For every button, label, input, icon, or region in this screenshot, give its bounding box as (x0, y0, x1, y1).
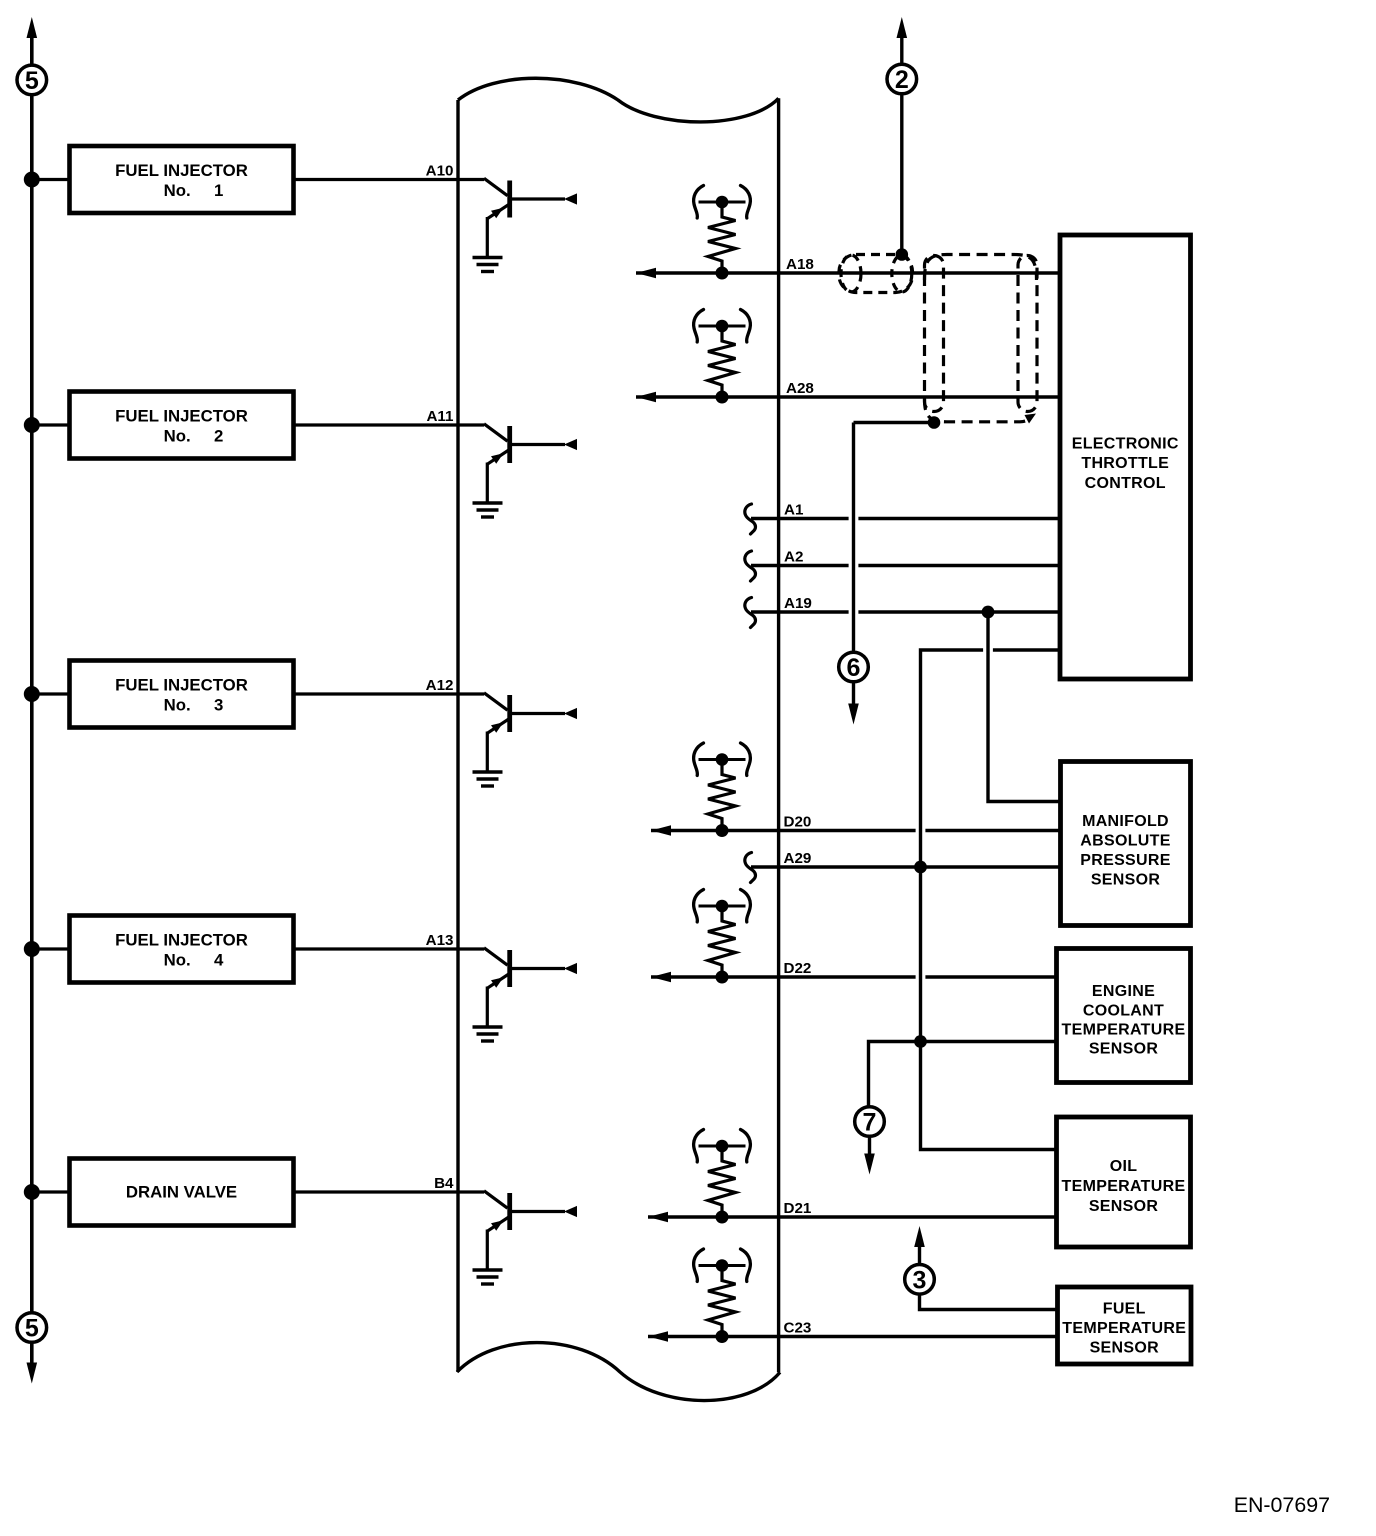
svg-text:7: 7 (863, 1109, 877, 1137)
svg-text:OIL: OIL (1110, 1158, 1138, 1175)
svg-text:FUEL INJECTOR: FUEL INJECTOR (115, 161, 248, 180)
svg-text:A18: A18 (786, 256, 814, 273)
svg-text:MANIFOLD: MANIFOLD (1082, 813, 1169, 830)
svg-text:No. 2: No. 2 (164, 427, 224, 446)
svg-text:D20: D20 (784, 813, 812, 830)
svg-text:2: 2 (895, 66, 909, 94)
svg-text:5: 5 (25, 1315, 39, 1343)
svg-text:A13: A13 (426, 932, 454, 949)
svg-text:A12: A12 (426, 677, 454, 694)
svg-text:SENSOR: SENSOR (1091, 872, 1161, 889)
svg-text:THROTTLE: THROTTLE (1081, 455, 1169, 472)
svg-text:5: 5 (25, 67, 39, 95)
svg-text:No. 1: No. 1 (164, 181, 224, 200)
svg-text:A29: A29 (784, 850, 812, 867)
svg-text:EN-07697: EN-07697 (1234, 1493, 1330, 1517)
svg-text:DRAIN VALVE: DRAIN VALVE (126, 1183, 237, 1202)
svg-text:FUEL: FUEL (1103, 1301, 1146, 1318)
svg-text:TEMPERATURE: TEMPERATURE (1062, 1320, 1186, 1337)
svg-text:A10: A10 (426, 163, 454, 180)
svg-text:COOLANT: COOLANT (1083, 1003, 1164, 1020)
svg-text:SENSOR: SENSOR (1090, 1340, 1160, 1357)
svg-text:A19: A19 (784, 595, 812, 612)
svg-text:A1: A1 (784, 501, 804, 518)
svg-text:FUEL INJECTOR: FUEL INJECTOR (115, 676, 248, 695)
svg-text:No. 4: No. 4 (164, 951, 224, 970)
svg-text:B4: B4 (434, 1175, 454, 1192)
svg-text:C23: C23 (784, 1319, 812, 1336)
svg-text:D21: D21 (784, 1200, 812, 1217)
svg-text:SENSOR: SENSOR (1089, 1198, 1159, 1215)
svg-text:FUEL INJECTOR: FUEL INJECTOR (115, 407, 248, 426)
svg-text:A11: A11 (426, 408, 454, 425)
svg-text:SENSOR: SENSOR (1089, 1041, 1159, 1058)
svg-text:A28: A28 (786, 380, 814, 397)
svg-text:PRESSURE: PRESSURE (1080, 852, 1170, 869)
svg-text:A2: A2 (784, 548, 803, 565)
svg-text:CONTROL: CONTROL (1085, 475, 1166, 492)
svg-text:TEMPERATURE: TEMPERATURE (1062, 1178, 1186, 1195)
svg-text:ELECTRONIC: ELECTRONIC (1072, 436, 1179, 453)
svg-text:FUEL INJECTOR: FUEL INJECTOR (115, 931, 248, 950)
svg-text:3: 3 (913, 1266, 927, 1294)
svg-text:6: 6 (847, 654, 861, 682)
svg-text:ENGINE: ENGINE (1092, 983, 1155, 1000)
svg-text:No. 3: No. 3 (164, 696, 224, 715)
svg-text:ABSOLUTE: ABSOLUTE (1080, 833, 1170, 850)
svg-text:TEMPERATURE: TEMPERATURE (1062, 1022, 1186, 1039)
svg-text:D22: D22 (784, 960, 812, 977)
